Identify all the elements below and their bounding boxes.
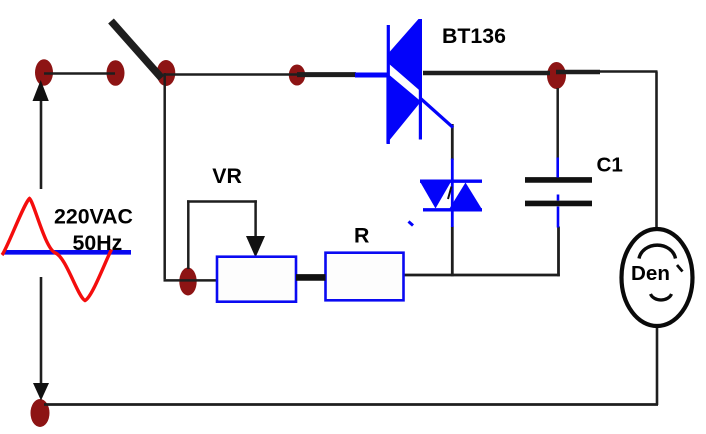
- svg-text:Den: Den: [631, 262, 670, 285]
- svg-text:BT136: BT136: [442, 24, 506, 48]
- svg-text:R: R: [354, 223, 369, 247]
- svg-text:C1: C1: [597, 153, 623, 176]
- svg-text:220VAC: 220VAC: [54, 205, 133, 229]
- svg-text:VR: VR: [212, 164, 242, 188]
- svg-text:50Hz: 50Hz: [73, 231, 123, 255]
